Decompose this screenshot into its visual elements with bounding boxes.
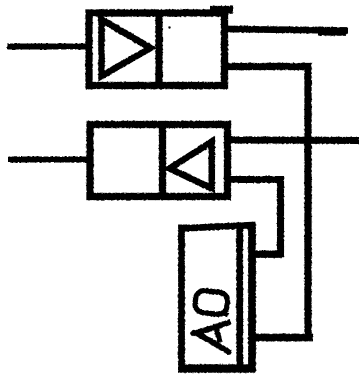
stray dot [168, 26, 170, 28]
wire: connector thickening near A0 [250, 253, 282, 258]
wire: input blob 2 [9, 157, 15, 163]
chip A0 bottom edge [178, 364, 256, 373]
chip A0 left edge [178, 225, 185, 372]
wire: U2 upper right output crossing vertical net to image edge [228, 136, 359, 144]
label A0 letter A apex blob [190, 330, 196, 336]
chip A0 inner strip line [236, 225, 243, 372]
buffer U1 triangle (right-pointing) [102, 20, 151, 77]
buffer U1 box [89, 13, 225, 86]
wire: U1 output tail [318, 32, 346, 36]
inverter U2 box [90, 125, 228, 197]
wire: left input to U1 [7, 43, 90, 49]
label A0 digit 0 tail [225, 313, 229, 316]
chip A0 outer right edge [248, 223, 256, 372]
chip A0 top edge [179, 225, 256, 229]
label A0 letter A legs (rotated, apex left) [197, 323, 231, 353]
label A0 letter A crossbar [216, 327, 220, 343]
buffer U1 divider [155, 11, 162, 88]
wire: left input to U2 [8, 156, 91, 162]
inverter U2 divider [159, 123, 166, 199]
wire: bottom connector from net down to A0 right side [248, 334, 313, 342]
inverter U2 triangle (left-pointing) [170, 142, 212, 189]
label A0 letter A upper-leg hook [226, 322, 231, 324]
label A0 letter A lower-leg end blob [226, 349, 232, 355]
wire: U2 lower output right, down, left into A0 [228, 180, 281, 255]
wire: U1 upper right output [225, 29, 349, 31]
label A0 digit 0 (rotated, long axis horizontal) [194, 290, 228, 316]
wire: input blob [8, 44, 14, 50]
buffer U1 top-right overshoot stroke [210, 6, 233, 14]
wire: U1 lower output going right then down (net to A0) [225, 67, 309, 339]
